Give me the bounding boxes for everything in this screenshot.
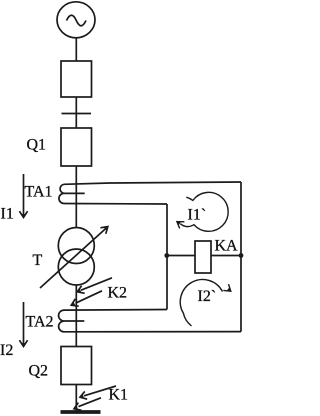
svg-text:K2: K2	[108, 285, 128, 302]
circulation arrow I2`	[180, 279, 222, 326]
wire TA2 bottom terminal to outer loop bottom	[64, 331, 241, 333]
svg-text:I1: I1	[1, 206, 14, 223]
wire TA2 top terminal to inner loop bottom	[64, 309, 167, 312]
regulation arrow of T	[40, 229, 106, 288]
svg-text:TA1: TA1	[25, 184, 53, 201]
sine symbol inside generator	[67, 15, 87, 26]
ground	[61, 410, 101, 414]
svg-text:I2: I2	[0, 342, 13, 359]
CT TA1 middle tap line	[64, 192, 85, 194]
generator G (AC source)	[57, 2, 95, 38]
wire TA1 bottom terminal to inner loop top	[64, 203, 167, 206]
svg-text:Q2: Q2	[29, 363, 49, 380]
CT TA2 middle tap line	[64, 320, 84, 322]
wire TA1 top terminal to outer loop top	[64, 182, 241, 184]
node junction left	[164, 253, 169, 258]
inner loop right edge	[166, 204, 168, 310]
fault marker K2 stroke 2	[76, 291, 103, 303]
svg-text:I2`: I2`	[198, 288, 217, 305]
fault marker K1 stroke 2	[79, 398, 102, 407]
current arrow I2	[23, 302, 25, 344]
svg-text:Q1: Q1	[27, 137, 47, 154]
wire KA branch	[167, 255, 241, 257]
wire box1 to Q1	[75, 97, 77, 128]
fault marker K2 stroke 1	[81, 278, 112, 290]
breaker Q1	[61, 128, 92, 166]
svg-text:K1: K1	[109, 387, 129, 404]
wire Q1 to transformer	[75, 166, 77, 228]
svg-text:KA: KA	[215, 238, 239, 255]
outer loop right edge	[240, 182, 242, 332]
current arrow I1	[23, 174, 25, 215]
svg-text:TA2: TA2	[26, 314, 54, 331]
circulation arrow I1`	[180, 192, 228, 231]
wire transformer to Q2	[75, 285, 77, 347]
fault marker K1 stroke 1	[84, 386, 116, 396]
svg-text:T: T	[33, 252, 43, 269]
wire generator to box1	[75, 39, 77, 62]
wire Q2 to ground	[75, 385, 77, 412]
CT TA2 winding arcs	[59, 310, 64, 332]
breaker box (top)	[61, 61, 92, 97]
tick mark on wire	[62, 113, 92, 115]
transformer T circle 2	[58, 249, 94, 285]
breaker Q2	[61, 347, 92, 385]
transformer T circle 1	[58, 228, 94, 264]
node junction right	[239, 253, 244, 258]
svg-text:I1`: I1`	[188, 207, 207, 224]
relay KA	[195, 241, 211, 273]
CT TA1 winding arcs	[59, 184, 64, 203]
